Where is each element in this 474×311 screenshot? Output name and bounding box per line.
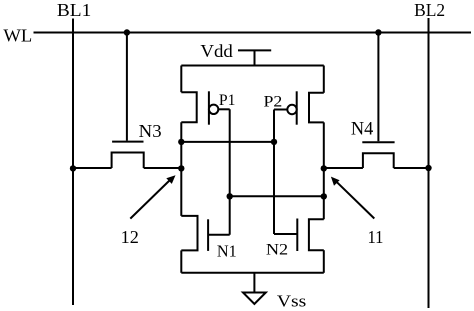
svg-text:Vss: Vss: [277, 291, 307, 310]
transistor N2 channel: [309, 219, 324, 250]
junction WL to N4 gate: [375, 29, 381, 35]
svg-text:11: 11: [368, 227, 384, 247]
transistor N1 gate: [207, 219, 209, 251]
svg-text:N1: N1: [217, 241, 237, 260]
junction BL2 node: [425, 165, 431, 171]
wire P1 drain to node 12: [180, 122, 182, 216]
junction P1 gate wire: [227, 193, 233, 199]
transistor P2 bubble: [287, 105, 296, 114]
wire Vss rail bottom: [181, 272, 323, 274]
junction node 12 storage node: [178, 165, 184, 171]
transistor N2 gate: [296, 219, 298, 252]
wire P2 gate to N2 gate vertical: [273, 110, 275, 235]
wire BL1 to N3: [73, 167, 112, 169]
wire N2 source to Vss rail: [323, 250, 325, 273]
svg-text:Vdd: Vdd: [200, 41, 233, 61]
wire cross couple node 12 to P2 N2 gates: [181, 141, 274, 143]
svg-text:BL2: BL2: [414, 0, 445, 20]
svg-text:N2: N2: [266, 242, 288, 259]
svg-text:N3: N3: [139, 121, 162, 141]
transistor N1 channel: [181, 216, 197, 251]
wire P1 gate to N1 gate vertical: [229, 109, 231, 234]
transistor P1 bubble: [209, 105, 218, 114]
wire BL2 bit line 2: [428, 18, 430, 308]
svg-text:P1: P1: [219, 92, 236, 109]
arrow to node 11: [331, 177, 374, 219]
wire N3 gate stem: [126, 33, 128, 141]
junction WL to N3 gate: [124, 29, 130, 35]
wire P2 drain to node 11: [323, 122, 325, 219]
wire node 11 to N4: [324, 167, 363, 169]
svg-text:BL1: BL1: [57, 0, 91, 20]
svg-text:12: 12: [121, 227, 139, 247]
junction node 11 rail: [321, 193, 327, 199]
wire N3 to node 12: [144, 167, 182, 169]
transistor P2 gate: [296, 91, 298, 124]
wire WL word line: [34, 32, 472, 34]
transistor N4 gate: [362, 141, 394, 143]
wire Vss stem: [253, 273, 255, 293]
ground Vss symbol: [243, 293, 266, 304]
wire N1 source to Vss rail: [180, 250, 182, 272]
wire Vdd rail to P1 source: [180, 66, 182, 93]
svg-text:P2: P2: [264, 93, 283, 110]
wire to N2 gate: [274, 233, 297, 235]
svg-text:N4: N4: [351, 119, 374, 140]
transistor P1 channel: [181, 92, 196, 122]
wire P2 gate horizontal: [274, 109, 287, 111]
junction BL1 node: [70, 165, 76, 171]
svg-text:WL: WL: [3, 25, 32, 45]
transistor N4 channel: [363, 153, 394, 168]
arrow to node 12: [130, 175, 175, 218]
transistor P1 gate: [208, 91, 210, 124]
wire to N1 gate: [208, 234, 230, 236]
wire cross couple node 11 to P1 N1 gates: [230, 195, 324, 197]
wire Vdd rail to P2 source: [323, 66, 325, 93]
transistor P2 channel: [309, 93, 324, 123]
wire BL1 bit line 1: [72, 19, 74, 306]
transistor N3 gate: [112, 141, 143, 143]
wire N4 to BL2: [394, 167, 429, 169]
wire N4 gate stem: [377, 33, 379, 142]
power Vdd symbol: [238, 50, 271, 65]
junction P2 gate wire: [271, 139, 277, 145]
junction node 12 rail: [178, 139, 184, 145]
junction node 11 storage node: [321, 165, 327, 171]
wire P1 gate horizontal: [218, 108, 229, 110]
wire Vdd rail top: [181, 65, 323, 67]
transistor N3 channel: [112, 153, 144, 169]
